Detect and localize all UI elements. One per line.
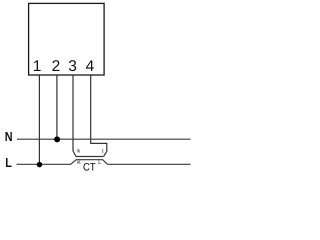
svg-text:l: l xyxy=(102,149,103,155)
junction dot on N line xyxy=(54,136,60,142)
svg-text:L: L xyxy=(98,160,101,166)
junction dot on L line xyxy=(37,162,43,168)
svg-text:2: 2 xyxy=(52,58,61,75)
L line (live wire) with CT primary bump xyxy=(17,160,191,165)
N line (neutral wire) xyxy=(17,138,191,140)
svg-text:k: k xyxy=(77,149,80,155)
svg-text:N: N xyxy=(5,129,13,144)
wire pin3 to CT secondary k xyxy=(73,75,76,157)
svg-text:CT: CT xyxy=(83,162,96,171)
svg-text:K: K xyxy=(77,160,81,166)
wire pin4 to CT secondary l xyxy=(91,75,107,156)
svg-text:4: 4 xyxy=(86,58,95,75)
meter box U1 xyxy=(29,3,105,75)
svg-text:L: L xyxy=(5,155,12,170)
svg-text:1: 1 xyxy=(33,58,42,75)
wire pin1 to L line xyxy=(38,75,40,164)
svg-text:3: 3 xyxy=(68,58,77,75)
CT secondary bar xyxy=(76,156,104,158)
wire pin2 to N line xyxy=(56,75,58,139)
